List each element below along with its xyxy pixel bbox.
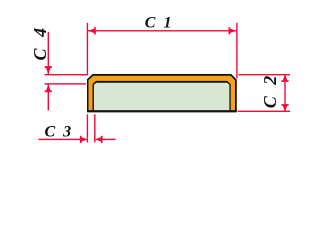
svg-text:C 2: C 2: [260, 72, 280, 108]
dimension C3: right extension line: [94, 114, 95, 142]
dimension C1: left arrow tick: [94, 27, 96, 34]
svg-text:C 1: C 1: [145, 14, 174, 31]
profile green core: [94, 83, 230, 110]
dimension C2: bottom arrowhead: [282, 105, 287, 112]
dimension C4: top extension line: [45, 74, 89, 75]
dimension C4: upper arrowhead (points down): [46, 67, 51, 74]
dimension C2: top extension line: [239, 74, 291, 75]
dimension C1: left extension line: [87, 23, 88, 75]
dimension C3: left arrow tick: [80, 136, 82, 143]
dimension C2: bottom extension line: [238, 111, 291, 112]
dimension C3: right tail line: [102, 139, 116, 140]
svg-text:C 3: C 3: [45, 123, 74, 140]
dimension C2: bottom arrow tick: [281, 104, 288, 106]
profile inner outline (black): [93, 81, 231, 110]
dimension C1: right arrowhead: [229, 28, 236, 33]
dimension C4: upper arrow tick: [45, 66, 52, 68]
dimension C3: left tail line: [39, 139, 82, 140]
dimension C3: left arrowhead (points right): [81, 137, 88, 142]
profile orange body: [89, 76, 236, 110]
dimension C4: lower arrow tick: [45, 91, 52, 93]
dimension C2: top arrow tick: [281, 80, 288, 82]
dimension C1: dimension line: [88, 30, 236, 31]
profile outer silhouette (black outline): [87, 74, 237, 112]
dimension C1: right extension line: [236, 23, 237, 79]
dimension C4: lower arrowhead (points up): [46, 84, 51, 91]
dimension C1: left arrowhead: [88, 28, 95, 33]
dimension C2: top arrowhead: [282, 74, 287, 81]
dimension C3: right arrowhead (points left): [95, 137, 102, 142]
dimension C3: right arrow tick: [101, 136, 103, 143]
dimension C4: bottom extension line: [45, 83, 87, 84]
dimension C1: right arrow tick: [229, 27, 231, 34]
svg-text:C 4: C 4: [30, 24, 50, 60]
dimension C4: dimension line lower part: [48, 85, 49, 111]
dimension C4: dimension line upper part: [48, 32, 49, 74]
dimension C3: left extension line: [87, 114, 88, 142]
dimension C2: dimension line: [284, 75, 285, 111]
